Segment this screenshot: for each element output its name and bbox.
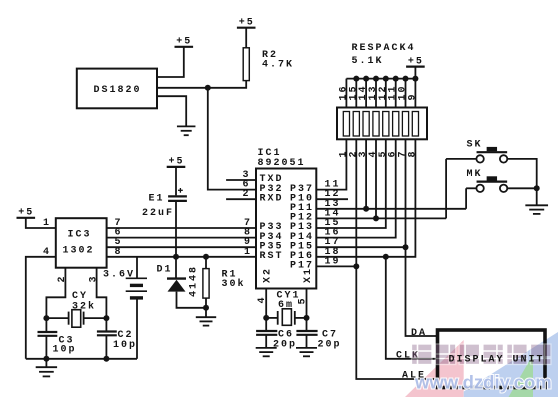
svg-text:RST: RST <box>260 251 284 262</box>
svg-text:4.7K: 4.7K <box>262 60 294 71</box>
svg-text:10p: 10p <box>113 340 137 351</box>
svg-text:1: 1 <box>43 218 51 229</box>
svg-text:E1: E1 <box>149 194 165 205</box>
svg-text:30k: 30k <box>222 278 246 290</box>
svg-text:CY: CY <box>72 291 88 302</box>
svg-text:20p: 20p <box>273 339 297 350</box>
svg-text:5.1K: 5.1K <box>352 56 384 67</box>
svg-text:+5: +5 <box>239 18 255 29</box>
svg-text:+5: +5 <box>169 157 185 168</box>
svg-text:32k: 32k <box>72 301 96 313</box>
svg-text:892051: 892051 <box>258 158 306 169</box>
svg-text:DS1820: DS1820 <box>94 85 142 96</box>
svg-text:DA: DA <box>411 328 427 339</box>
svg-text:9: 9 <box>407 92 418 100</box>
svg-text:2: 2 <box>243 189 251 200</box>
svg-text:4: 4 <box>43 247 51 258</box>
svg-text:DISPLAY UNIT: DISPLAY UNIT <box>449 355 545 366</box>
svg-text:8: 8 <box>407 149 418 157</box>
svg-text:1302: 1302 <box>63 245 95 256</box>
svg-text:RXD: RXD <box>260 193 284 204</box>
svg-text:20p: 20p <box>318 339 342 350</box>
svg-text:www.dzdiy.com: www.dzdiy.com <box>414 372 552 393</box>
svg-text:8: 8 <box>115 247 123 258</box>
svg-text:MK: MK <box>467 169 483 180</box>
svg-text:X2: X2 <box>263 267 274 283</box>
svg-text:D1: D1 <box>157 265 173 276</box>
svg-text:IC3: IC3 <box>68 230 92 241</box>
svg-text:4: 4 <box>257 295 268 303</box>
svg-text:1: 1 <box>244 247 252 258</box>
svg-text:6m: 6m <box>278 300 294 311</box>
svg-text:10p: 10p <box>53 345 77 356</box>
svg-text:+5: +5 <box>176 37 192 48</box>
svg-text:X1: X1 <box>303 267 314 283</box>
svg-text:2: 2 <box>57 274 68 282</box>
svg-text:+5: +5 <box>18 208 34 219</box>
svg-text:RESPACK4: RESPACK4 <box>352 43 416 54</box>
svg-text:+5: +5 <box>408 56 424 67</box>
svg-text:SK: SK <box>467 140 483 151</box>
svg-text:3: 3 <box>88 274 99 282</box>
svg-text:22uF: 22uF <box>142 208 174 219</box>
svg-text:4148: 4148 <box>189 265 200 297</box>
